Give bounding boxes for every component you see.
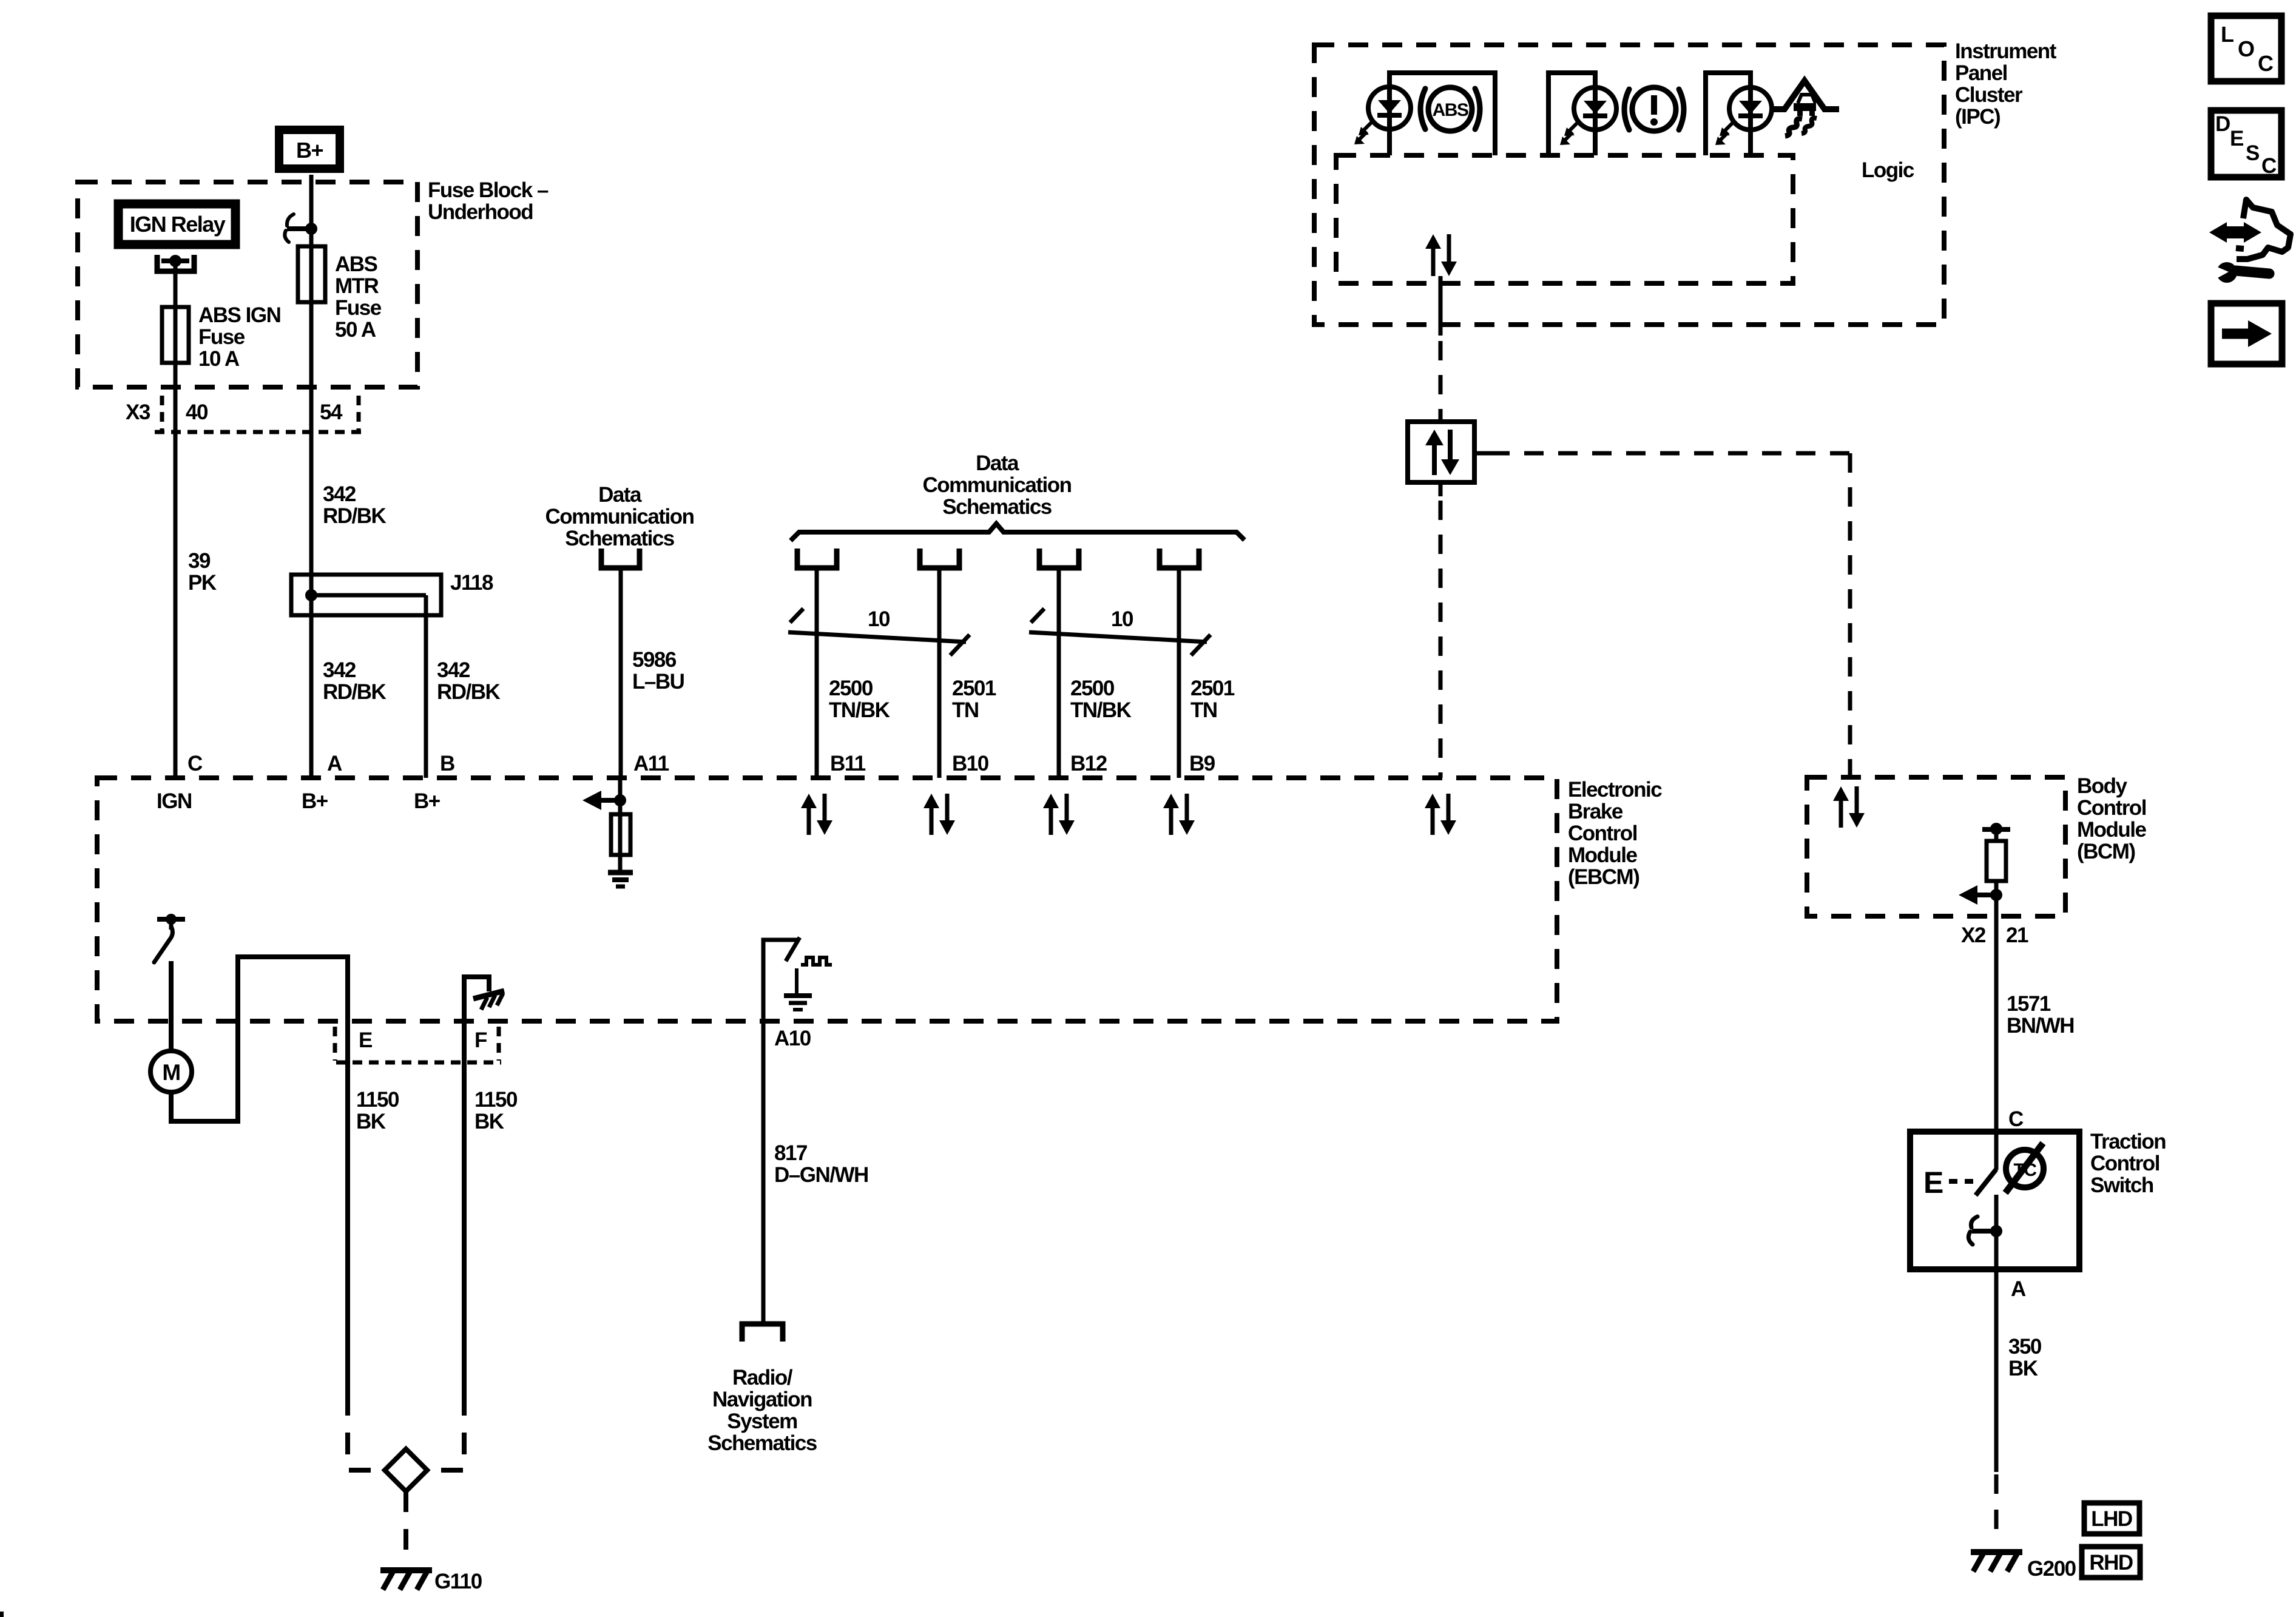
wire label 350 BK [2008,1335,2042,1380]
svg-text:Control: Control [2090,1152,2159,1175]
wire label 5986 L-BU [632,648,684,694]
svg-text:50 A: 50 A [335,318,376,342]
svg-text:54: 54 [320,400,343,424]
svg-text:1150: 1150 [474,1088,518,1112]
svg-text:Communication: Communication [923,473,1072,497]
svg-text:RD/BK: RD/BK [323,504,387,528]
relay IGN Relay coil box [118,204,235,245]
wire label 1150 BK right [474,1088,518,1133]
module Electronic Brake Control Module EBCM dashed box [97,778,1557,1021]
svg-text:A: A [2011,1277,2026,1301]
svg-text:Data: Data [976,451,1019,475]
svg-text:2500: 2500 [1070,677,1115,700]
LED ABS warning lamp [1354,87,1411,144]
LED brake warning lamp [1560,87,1616,145]
svg-text:C: C [2261,154,2277,178]
svg-text:Control: Control [2077,796,2146,820]
svg-text:Module: Module [1568,843,1638,867]
RHD box [2082,1547,2140,1578]
IPC logic serial data arrows [1425,234,1457,276]
svg-text:B9: B9 [1189,752,1215,775]
label Body Control Module BCM [2077,774,2147,863]
relay contact of IGN relay on B+ feed [285,214,317,242]
wire label 817 D-GN/WH [774,1141,868,1187]
svg-text:1571: 1571 [2007,992,2051,1016]
svg-text:D: D [2215,112,2230,136]
icon ABS indicator [1420,87,1480,131]
svg-text:D–GN/WH: D–GN/WH [774,1163,868,1187]
svg-text:G200: G200 [2027,1557,2076,1581]
svg-text:B+: B+ [296,138,323,163]
svg-text:10 A: 10 A [198,347,240,371]
IPC brake warning lamp circuit loop [1548,73,1595,155]
label Traction Control Switch [2090,1130,2166,1197]
label Fuse Block - Underhood [428,178,549,224]
svg-text:MTR: MTR [335,274,379,298]
svg-text:O: O [2238,36,2254,61]
wire label 1150 BK left [356,1088,399,1133]
icon DESC reference box [2211,110,2281,178]
EBCM serial data arrows at B12 [1043,794,1075,835]
svg-text:21: 21 [2006,923,2028,947]
LED traction control lamp [1715,87,1772,145]
EBCM internal case ground for F output [464,977,504,1031]
twisted pair marker 10 for B12/B9 [1029,607,1210,655]
wire label 342 RD/BK upper [323,482,387,528]
svg-text:TN/BK: TN/BK [1070,698,1132,722]
switch blade and E position [1923,1166,1996,1200]
off-page connector for wire 2500 at B12 [1039,549,1079,568]
svg-text:817: 817 [774,1141,807,1165]
svg-text:10: 10 [1111,607,1133,631]
svg-text:PK: PK [188,571,217,595]
svg-text:Data: Data [598,483,642,507]
svg-text:2500: 2500 [829,677,873,700]
icon TC off indicator [2005,1143,2044,1193]
svg-text:B+: B+ [302,789,328,813]
wire 2500 TN/BK to EBCM pin B11 [815,568,819,778]
svg-text:342: 342 [323,482,356,506]
switch lower contact with momentary symbol [1968,1195,2002,1269]
wire 817 D-GN/WH from EBCM pin A10 to radio [761,940,766,1322]
off-page connector to radio navigation [742,1324,783,1342]
svg-text:Fuse: Fuse [335,296,382,320]
IPC logic dashed box [1336,155,1793,283]
svg-text:Schematics: Schematics [707,1431,817,1455]
off-page connector for wire 5986 [601,549,640,568]
wire from contact to pump motor [169,961,174,1052]
wire 5986 L-BU to EBCM pin A11 [619,568,623,778]
svg-text:342: 342 [323,658,356,682]
svg-text:LHD: LHD [2091,1507,2132,1531]
svg-text:C: C [2008,1107,2024,1131]
wire label 2500 TN/BK at B12 [1070,677,1132,722]
svg-text:A10: A10 [774,1027,811,1050]
svg-text:RHD: RHD [2089,1551,2133,1575]
svg-text:Fuse Block –: Fuse Block – [428,178,549,202]
svg-text:Instrument: Instrument [1955,39,2057,63]
svg-text:X3: X3 [126,400,150,424]
ground G110 [380,1569,482,1593]
EBCM serial data arrows at B9 [1163,794,1195,835]
svg-text:Cluster: Cluster [1955,83,2023,107]
splice diamond to ground [385,1449,427,1491]
EBCM internal class 2 serial pigtail at A10 [763,937,832,1010]
icon forward arrow box [2211,303,2282,364]
svg-text:B10: B10 [952,752,989,775]
brace for data communication wires [791,524,1244,541]
svg-text:System: System [727,1409,797,1433]
svg-text:RD/BK: RD/BK [437,680,501,704]
label Data Communication Schematics (left) [545,483,694,550]
svg-text:342: 342 [437,658,470,682]
svg-text:ABS IGN: ABS IGN [198,303,280,327]
wire 2501 TN to EBCM pin B10 [937,568,942,778]
svg-text:L–BU: L–BU [632,670,684,694]
fuse ABS MTR Fuse 50 A [298,246,382,342]
svg-text:39: 39 [188,549,211,573]
svg-text:Schematics: Schematics [565,527,675,550]
svg-text:Underhood: Underhood [428,200,533,224]
svg-text:Logic: Logic [1862,158,1914,182]
svg-text:350: 350 [2008,1335,2042,1359]
svg-text:L: L [2221,22,2234,47]
Traction Control Switch box [1910,1132,2079,1269]
svg-text:BK: BK [2008,1357,2038,1380]
wire label 39 PK [188,549,217,595]
svg-text:B: B [440,752,454,775]
svg-text:2501: 2501 [1190,677,1235,700]
EBCM serial data arrows at B11 [801,794,832,835]
svg-text:BK: BK [474,1110,504,1133]
ground G200 [1971,1551,2076,1581]
EBCM serial data arrows at B10 [923,794,955,835]
svg-text:G110: G110 [434,1570,482,1593]
svg-text:Body: Body [2077,774,2128,798]
svg-text:Module: Module [2077,818,2147,842]
svg-text:E: E [1923,1166,1943,1200]
BCM internal pull-up and signal sense for TC switch [1959,823,2010,916]
icon LOC reference box [2211,16,2281,81]
svg-text:X2: X2 [1961,923,1986,947]
svg-text:BN/WH: BN/WH [2007,1014,2074,1038]
wire label 342 RD/BK lower right [437,658,501,704]
wire 342 RD/BK from B+ through ABS MTR fuse to splice J118 and EBCM pin A [309,175,314,778]
svg-text:Communication: Communication [545,505,694,528]
svg-text:1150: 1150 [356,1088,399,1112]
label Data Communication Schematics (center) [923,451,1072,519]
wire from logic to class 2 serial data [1439,276,1443,336]
svg-text:IGN Relay: IGN Relay [130,212,226,237]
off-page connector for wire 2500 at B11 [797,549,837,568]
svg-text:RD/BK: RD/BK [323,680,387,704]
svg-text:(IPC): (IPC) [1955,105,2000,129]
dashed wire segment E to splice diamond [348,1394,385,1470]
wire 1571 BN/WH from BCM to TC switch pin C [1994,916,1999,1170]
fuse ABS IGN Fuse 10 A [162,303,280,371]
wire label 342 RD/BK lower left [323,658,387,704]
module Instrument Panel Cluster IPC dashed box [1314,45,1944,325]
IPC traction control lamp circuit loop [1706,73,1751,155]
svg-text:TN/BK: TN/BK [829,698,890,722]
wire 350 BK from TC switch to G200 [1994,1269,1999,1544]
svg-text:Schematics: Schematics [942,495,1052,519]
EBCM internal relay contact for pump motor [154,914,185,962]
svg-text:F: F [474,1028,487,1052]
svg-text:(BCM): (BCM) [2077,840,2135,863]
IGN relay output terminal cup [157,255,194,271]
svg-text:(EBCM): (EBCM) [1568,865,1639,889]
svg-text:Panel: Panel [1955,61,2007,85]
svg-text:A11: A11 [633,752,669,775]
dashed serial data wire from junction box to EBCM [1439,482,1443,778]
svg-text:5986: 5986 [632,648,677,672]
wire label 2500 TN/BK at B11 [829,677,890,722]
svg-text:S: S [2246,141,2259,165]
wire label 2501 TN at B9 [1190,677,1235,722]
BCM serial data arrows [1833,786,1865,828]
svg-text:C: C [187,752,203,775]
svg-text:40: 40 [186,400,208,424]
svg-text:E: E [2230,127,2243,150]
motor M ABS pump [150,1051,192,1092]
IPC ABS lamp circuit loop [1389,73,1495,155]
connector X3 of fuse block, pins 40 and 54 [126,396,364,432]
svg-text:Navigation: Navigation [712,1388,812,1411]
splice pack J118 [291,571,493,615]
svg-text:E: E [359,1028,372,1052]
svg-text:TN: TN [1190,698,1217,722]
svg-text:BK: BK [356,1110,386,1133]
svg-text:TN: TN [952,698,979,722]
twisted pair marker 10 for B11/B10 [788,607,970,655]
LHD box [2084,1503,2139,1534]
svg-text:M: M [162,1060,180,1085]
EBCM serial data arrows at class 2 input [1425,794,1456,835]
wire from motor to EBCM ground path [171,957,348,1394]
svg-text:Switch: Switch [2090,1173,2153,1197]
icon traction control skid indicator [1770,81,1839,136]
svg-text:B12: B12 [1070,752,1107,775]
svg-text:2501: 2501 [952,677,996,700]
svg-text:Control: Control [1568,822,1637,845]
EBCM connector row pins E and F [335,1027,501,1062]
off-page connector for wire 2501 at B10 [920,549,959,568]
svg-text:B+: B+ [414,789,441,813]
svg-text:J118: J118 [450,571,493,595]
svg-text:IGN: IGN [157,789,192,813]
svg-text:B11: B11 [830,752,866,775]
svg-text:ABS: ABS [335,252,377,276]
wire label 2501 TN at B10 [952,677,996,722]
class 2 serial data junction box [1408,422,1474,482]
Fuse Block - Underhood dashed box [78,182,417,387]
svg-text:Brake: Brake [1568,800,1623,823]
icon brake warning indicator [1624,87,1684,131]
dashed wire diamond to G110 [403,1491,408,1565]
label Radio Navigation System Schematics [707,1366,817,1455]
wire 342 RD/BK from J118 to EBCM pin B [424,595,428,778]
power feed B+ terminal box [279,130,340,169]
EBCM serial data node at A11: junction, arrow, resistor and ground [582,778,633,886]
wire label 1571 BN/WH [2007,992,2074,1038]
dashed serial data wire from junction box to BCM [1474,453,1850,777]
label Electronic Brake Control Module EBCM [1568,778,1662,889]
svg-text:Radio/: Radio/ [732,1366,793,1389]
svg-text:Fuse: Fuse [198,325,245,349]
svg-text:Electronic: Electronic [1568,778,1662,802]
label Instrument Panel Cluster IPC [1955,39,2057,129]
dashed class 2 serial data wire from IPC to connector box [1439,341,1443,422]
svg-text:A: A [327,752,342,775]
svg-text:C: C [2258,51,2274,76]
svg-text:10: 10 [868,607,890,631]
icon diagnostic wrench with double arrow [2209,200,2291,283]
svg-text:ABS: ABS [1433,100,1468,120]
module Body Control Module BCM dashed box [1807,777,2065,916]
wire 2500 TN/BK to EBCM pin B12 [1057,568,1061,778]
wire 1150 BK from F to G110 [462,1031,467,1394]
page corner mark [0,1612,4,1617]
dashed wire segment F to splice diamond [427,1394,464,1470]
wire 39 PK from IGN relay through ABS IGN fuse to EBCM pin C [174,266,178,778]
svg-text:Traction: Traction [2090,1130,2166,1153]
wire 2501 TN to EBCM pin B9 [1177,568,1181,778]
BCM connector X2 pin 21 [1961,923,2028,947]
off-page connector for wire 2501 at B9 [1160,549,1199,568]
